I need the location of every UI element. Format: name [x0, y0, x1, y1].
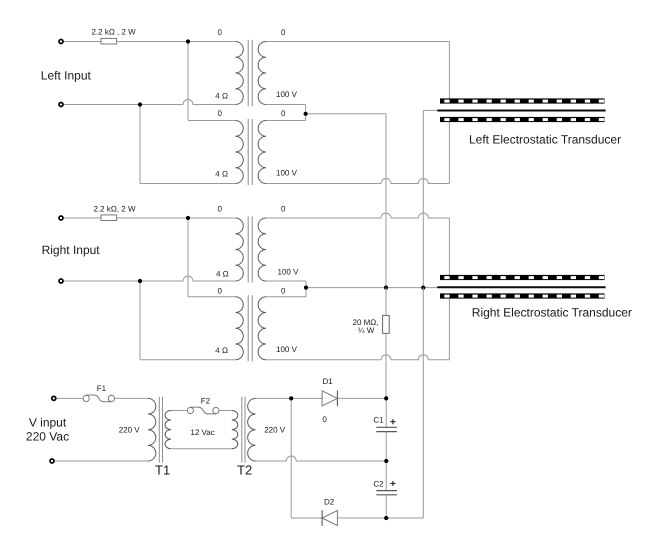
- svg-text:220 Vac: 220 Vac: [26, 429, 69, 443]
- svg-text:Left Electrostatic Transducer: Left Electrostatic Transducer: [469, 133, 621, 147]
- svg-text:V input: V input: [29, 415, 67, 429]
- svg-text:4 Ω: 4 Ω: [216, 270, 229, 279]
- svg-text:2.2 kΩ, 2 W: 2.2 kΩ, 2 W: [94, 204, 136, 213]
- svg-text:0: 0: [281, 109, 286, 118]
- svg-text:Right Electrostatic Transducer: Right Electrostatic Transducer: [472, 305, 632, 319]
- svg-text:0: 0: [218, 109, 223, 118]
- svg-text:F2: F2: [201, 396, 211, 405]
- svg-text:100 V: 100 V: [276, 90, 298, 99]
- svg-text:0: 0: [322, 415, 327, 424]
- svg-text:Left Input: Left Input: [41, 69, 92, 83]
- svg-text:100 V: 100 V: [278, 268, 300, 277]
- svg-text:0: 0: [218, 204, 223, 213]
- svg-text:Right Input: Right Input: [42, 243, 101, 257]
- svg-text:4 Ω: 4 Ω: [215, 169, 228, 178]
- svg-text:D2: D2: [324, 498, 335, 507]
- svg-text:220 V: 220 V: [119, 425, 141, 434]
- svg-text:T1: T1: [155, 462, 170, 477]
- svg-text:F1: F1: [97, 384, 107, 393]
- svg-text:12 Vac: 12 Vac: [190, 428, 214, 437]
- svg-text:100 V: 100 V: [276, 169, 298, 178]
- svg-text:¼ W: ¼ W: [358, 326, 375, 335]
- svg-text:0: 0: [218, 286, 223, 295]
- svg-text:100 V: 100 V: [276, 345, 298, 354]
- svg-text:0: 0: [218, 28, 223, 37]
- svg-text:0: 0: [281, 204, 286, 213]
- svg-text:C1: C1: [373, 416, 384, 425]
- svg-text:0: 0: [281, 286, 286, 295]
- svg-text:T2: T2: [237, 462, 252, 477]
- svg-text:D1: D1: [323, 377, 334, 386]
- svg-text:220 V: 220 V: [264, 425, 286, 434]
- svg-text:0: 0: [281, 28, 286, 37]
- svg-text:C2: C2: [373, 479, 384, 488]
- svg-text:4 Ω: 4 Ω: [215, 346, 228, 355]
- svg-text:2.2 kΩ , 2 W: 2.2 kΩ , 2 W: [92, 28, 137, 37]
- svg-text:4 Ω: 4 Ω: [215, 91, 228, 100]
